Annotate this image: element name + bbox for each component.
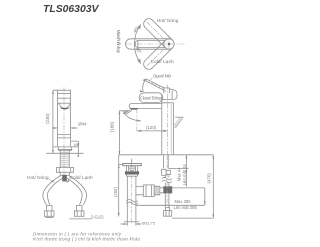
left hose connector — [44, 205, 54, 218]
closed lever capsule — [139, 93, 163, 103]
base flange bottom dark — [58, 149, 72, 151]
handle hot position (rotated -45) — [141, 40, 172, 71]
drain plug box — [126, 166, 137, 172]
leader cold front — [66, 178, 70, 182]
dim (188) line — [119, 111, 127, 155]
dim max285 top line from tee — [172, 188, 205, 205]
svg-text:2-G1/2: 2-G1/2 — [91, 214, 104, 219]
svg-text:(6): (6) — [74, 142, 80, 147]
side body outline — [162, 99, 174, 155]
svg-text:Dimension in ( ) are for refer: Dimension in ( ) are for reference only — [33, 231, 122, 236]
spout arm side — [129, 104, 162, 109]
hose side to tee — [165, 183, 169, 187]
drain pipe end cap — [124, 221, 139, 223]
mounting surface line 285 — [136, 204, 205, 206]
svg-text:Hot/ Nóng: Hot/ Nóng — [157, 18, 179, 24]
svg-text:(120): (120) — [146, 125, 157, 130]
drain outlet tube — [136, 186, 143, 194]
drain gasket dark band — [125, 171, 139, 174]
svg-text:Kích thước trong ( ) chỉ là kí: Kích thước trong ( ) chỉ là kích thước t… — [33, 236, 140, 242]
svg-text:Ø44: Ø44 — [78, 122, 87, 127]
flange ext line — [119, 164, 123, 166]
open lever — [146, 79, 166, 91]
ground line under right connector — [70, 218, 92, 220]
svg-text:(470): (470) — [206, 173, 211, 184]
dim (120) line — [137, 130, 168, 132]
leader open — [149, 78, 152, 81]
drain outlet to tee — [160, 188, 164, 193]
drain centerline — [131, 159, 133, 225]
wire centerline front body — [63, 87, 65, 178]
svg-text:Max 285: Max 285 — [175, 199, 192, 204]
handle cold position (rotated +45) — [141, 16, 172, 47]
dim D44 arrows — [53, 127, 78, 129]
drain pipe break squiggle — [126, 200, 138, 205]
block under locknut — [60, 172, 69, 175]
svg-text:(188): (188) — [110, 121, 115, 132]
body bottom line — [53, 146, 78, 148]
svg-text:TLS06303V: TLS06303V — [43, 4, 100, 15]
hose side upper — [165, 175, 169, 177]
dim max44 line — [185, 155, 187, 187]
lever hatches — [151, 81, 163, 89]
aerator outlet dark bar — [130, 108, 137, 110]
dim 470 line with arrows — [212, 155, 214, 218]
svg-text:Lên mặt 44: Lên mặt 44 — [182, 164, 187, 186]
drain outlet ring — [154, 186, 160, 195]
head outline side — [162, 88, 177, 103]
aerator cup arc front — [59, 103, 71, 108]
counter line front — [46, 152, 84, 154]
right hose connector — [74, 205, 84, 216]
pivot dot — [168, 43, 171, 46]
hose end baseline — [172, 217, 214, 219]
threaded shank front — [60, 150, 69, 167]
body highlight line — [170, 104, 172, 154]
shank side — [164, 155, 169, 169]
svg-text:Hot/ Nóng: Hot/ Nóng — [27, 175, 49, 181]
break squiggle — [162, 177, 172, 182]
base flange front — [58, 147, 72, 150]
faucet top cap line — [57, 92, 70, 94]
drain lift rod tick — [131, 159, 133, 163]
outlet centerline dashed — [136, 110, 138, 133]
svg-text:Mixed/ Hỗn hợp: Mixed/ Hỗn hợp — [116, 30, 121, 54]
side hose end fitting — [164, 207, 172, 216]
drain pipe — [127, 176, 136, 222]
svg-text:Lên mặt 285: Lên mặt 285 — [174, 205, 198, 210]
spout lower edge line — [57, 102, 70, 104]
water direction arc — [124, 111, 141, 121]
handle inner face — [135, 40, 165, 47]
svg-text:(250): (250) — [113, 187, 118, 197]
svg-text:Ø31.75: Ø31.75 — [142, 221, 156, 226]
counter line — [119, 154, 214, 156]
svg-text:(230): (230) — [45, 113, 50, 124]
aerator dark crescent — [59, 107, 70, 109]
drain flange plate — [123, 163, 142, 166]
faucet spout shroud line — [57, 97, 70, 99]
dim 230 line — [53, 90, 58, 153]
dim D31.75 ext lines — [127, 222, 136, 225]
leader hot front — [48, 178, 55, 182]
svg-text:Close/ Đóng: Close/ Đóng — [140, 96, 162, 101]
wire centerline horizontal — [126, 43, 186, 45]
swing arc with arrows — [134, 24, 140, 64]
clamp bracket side — [162, 169, 171, 175]
drain lift rod knob — [175, 116, 183, 118]
drain coupling nut — [143, 185, 154, 197]
svg-text:Cold/ Lạnh: Cold/ Lạnh — [151, 59, 175, 65]
svg-text:Cold/ Lạnh: Cold/ Lạnh — [70, 175, 94, 181]
dim (6) bracket — [71, 141, 78, 156]
max44 ext line — [168, 167, 188, 169]
rotation arc open-close — [143, 79, 146, 92]
body seam lines — [57, 135, 70, 138]
faucet front body outline — [57, 90, 70, 147]
svg-text:Open/ Mở: Open/ Mở — [153, 72, 172, 78]
locknut front — [57, 167, 74, 172]
tee connector dark — [163, 186, 172, 193]
dim (250) line — [118, 155, 120, 217]
nut dark center — [62, 175, 67, 182]
drain step — [127, 175, 138, 177]
handle mixed position (horizontal pill) — [126, 39, 169, 49]
wire centerline vertical at pivot — [168, 36, 170, 53]
hose centerline dashed — [166, 156, 168, 206]
wire centerline side body — [167, 85, 169, 156]
outlet hatches — [123, 110, 132, 114]
dim D31.75 arrows — [121, 223, 142, 225]
pivot circle — [164, 39, 174, 49]
hose below tee — [165, 193, 169, 206]
hose Y right — [67, 176, 87, 205]
hose Y left — [43, 176, 63, 205]
